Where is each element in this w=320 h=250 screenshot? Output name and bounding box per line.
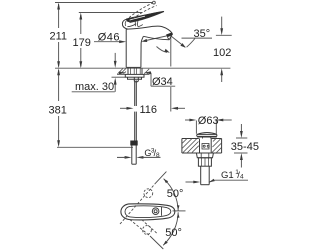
svg-text:max. 30: max. 30	[75, 81, 114, 93]
svg-text:116: 116	[140, 104, 158, 116]
svg-text:102: 102	[213, 47, 231, 59]
svg-text:35°: 35°	[194, 28, 211, 40]
svg-text:381: 381	[49, 105, 67, 117]
svg-text:Ø34: Ø34	[152, 76, 173, 88]
svg-text:211: 211	[50, 31, 68, 43]
svg-text:8: 8	[156, 152, 160, 159]
svg-text:50°: 50°	[165, 227, 182, 239]
svg-text:35-45: 35-45	[231, 141, 259, 153]
svg-text:Ø63: Ø63	[198, 115, 219, 127]
svg-text:4: 4	[240, 173, 244, 180]
svg-text:Ø46: Ø46	[98, 32, 120, 44]
svg-text:50°: 50°	[167, 188, 184, 200]
svg-text:179: 179	[73, 37, 91, 49]
svg-text:G1: G1	[221, 170, 234, 181]
